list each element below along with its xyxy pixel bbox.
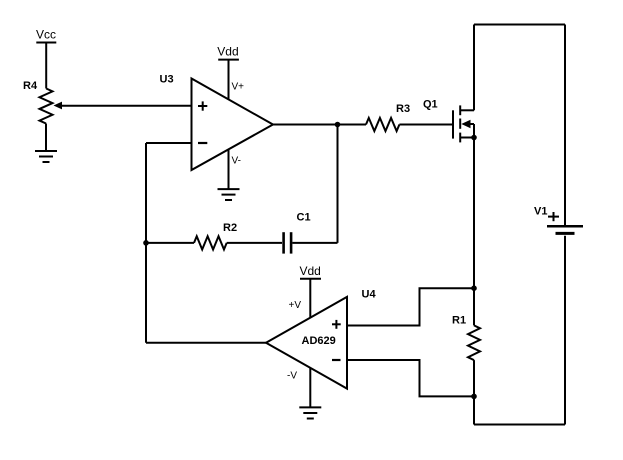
svg-text:R2: R2 bbox=[223, 222, 237, 234]
wire R1 bottom to corner bbox=[473, 360, 475, 424]
wire U3 output bbox=[273, 124, 366, 126]
pin -V of U4 bbox=[309, 368, 311, 407]
wire C1 to output node bbox=[292, 242, 337, 244]
power symbol Vcc bbox=[36, 42, 56, 44]
svg-text:U4: U4 bbox=[362, 289, 377, 301]
svg-text:U3: U3 bbox=[160, 74, 174, 86]
wire Q1 drain up bbox=[473, 25, 475, 111]
svg-text:Vcc: Vcc bbox=[36, 28, 56, 42]
resistor R4 (potentiometer) bbox=[40, 89, 63, 124]
svg-text:V-: V- bbox=[232, 156, 241, 167]
svg-text:+V: +V bbox=[289, 300, 302, 311]
wire R2 to C1 bbox=[227, 242, 282, 244]
wire R1 top to Q1 source bbox=[473, 138, 475, 326]
svg-text:Q1: Q1 bbox=[423, 99, 438, 111]
pin V+ of U3 bbox=[228, 60, 230, 100]
wire Vcc to R4 bbox=[45, 43, 47, 89]
wire left feedback vertical bbox=[145, 143, 147, 343]
svg-text:V+: V+ bbox=[232, 82, 245, 93]
junction node (feedback / R2) bbox=[143, 240, 149, 246]
svg-text:Vdd: Vdd bbox=[300, 264, 321, 278]
junction node (R1 top / U4 plus net) bbox=[471, 285, 477, 291]
pin +V of U4 bbox=[309, 279, 311, 318]
op-amp U3 bbox=[192, 79, 274, 171]
pin V- of U3 bbox=[228, 149, 230, 189]
capacitor C1 bbox=[284, 232, 292, 253]
ground (below U3) bbox=[218, 189, 240, 200]
svg-text:-V: -V bbox=[287, 371, 297, 382]
wire U3 minus input bbox=[146, 142, 192, 144]
wire V1 to bottom bbox=[564, 236, 566, 425]
power symbol Vdd (U4) bbox=[300, 278, 321, 280]
svg-text:R1: R1 bbox=[452, 315, 466, 327]
wire R4 to ground bbox=[45, 124, 47, 152]
ground (below R4) bbox=[35, 151, 57, 162]
junction node (Q1 source) bbox=[471, 135, 477, 141]
junction node (U3 output) bbox=[335, 122, 341, 128]
svg-text:Vdd: Vdd bbox=[217, 45, 238, 59]
wire right vertical to V1 bbox=[564, 25, 566, 227]
resistor R3 bbox=[366, 118, 399, 131]
battery V1 bbox=[547, 212, 583, 233]
svg-text:AD629: AD629 bbox=[302, 335, 336, 347]
wire U4 minus input bbox=[347, 360, 474, 396]
wire U4 plus input bbox=[347, 288, 474, 325]
svg-text:R3: R3 bbox=[396, 103, 410, 115]
svg-text:C1: C1 bbox=[297, 212, 311, 224]
resistor R2 bbox=[194, 236, 227, 249]
resistor R1 bbox=[468, 325, 480, 360]
wire bottom horizontal to U4 output bbox=[146, 342, 266, 344]
wire R3 to Q1 gate bbox=[399, 124, 452, 126]
ground (below U4) bbox=[299, 407, 321, 418]
wire top horizontal bbox=[474, 24, 565, 26]
transistor Q1 (NMOS) bbox=[453, 105, 474, 142]
wire vertical up to output node bbox=[337, 125, 339, 243]
op-amp U4 (AD629) bbox=[266, 297, 347, 389]
wire R4 wiper to U3 plus input bbox=[60, 105, 192, 107]
wire bottom horizontal bbox=[474, 424, 565, 426]
junction node (R1 bottom / U4 minus net) bbox=[471, 394, 477, 400]
svg-text:V1: V1 bbox=[534, 206, 547, 218]
power symbol Vdd (U3) bbox=[218, 59, 239, 61]
svg-text:R4: R4 bbox=[23, 80, 38, 92]
wire node to R2 bbox=[146, 242, 194, 244]
